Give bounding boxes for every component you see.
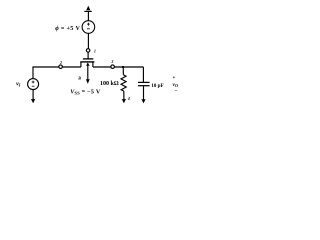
svg-text:3: 3 — [110, 59, 113, 64]
svg-text:B: B — [77, 75, 81, 80]
wire node to gate — [87, 52, 89, 59]
body arrow (into channel) — [86, 62, 89, 65]
ground (input source) — [32, 89, 34, 99]
svg-text:1: 1 — [94, 49, 96, 54]
svg-text:4: 4 — [127, 96, 130, 101]
node 1 (gate terminal) — [86, 49, 90, 53]
svg-text:+: + — [172, 75, 175, 81]
resistor 100 kOhm — [122, 67, 124, 75]
nmos Q (channel bar) — [80, 61, 94, 63]
nmos drain stub — [80, 62, 82, 67]
nmos source stub — [92, 62, 94, 67]
dc source phi — [82, 21, 95, 34]
svg-text:VSS = −5 V: VSS = −5 V — [70, 89, 101, 95]
svg-text:−: − — [174, 88, 177, 94]
node 2 (drain terminal) — [59, 65, 63, 69]
svg-text:ϕ = +5 V: ϕ = +5 V — [55, 26, 80, 32]
svg-text:10 pF: 10 pF — [151, 83, 164, 89]
body lead to VSS — [87, 66, 89, 80]
nmos Q (gate bar) — [83, 58, 93, 60]
capacitor 10 pF — [142, 67, 144, 82]
junction dot — [122, 66, 124, 68]
svg-text:vI: vI — [16, 81, 21, 87]
wire source to gate node — [87, 33, 89, 48]
wire drain to input — [62, 66, 81, 68]
supply arrow (+5 V rail) — [84, 6, 91, 21]
wire node2 to corner — [33, 67, 59, 79]
wire source-terminal to load — [93, 66, 111, 68]
node 3 (source terminal) — [111, 65, 115, 69]
svg-text:100 kΩ: 100 kΩ — [100, 81, 119, 87]
input source vI — [28, 79, 39, 90]
svg-text:2: 2 — [59, 60, 62, 65]
